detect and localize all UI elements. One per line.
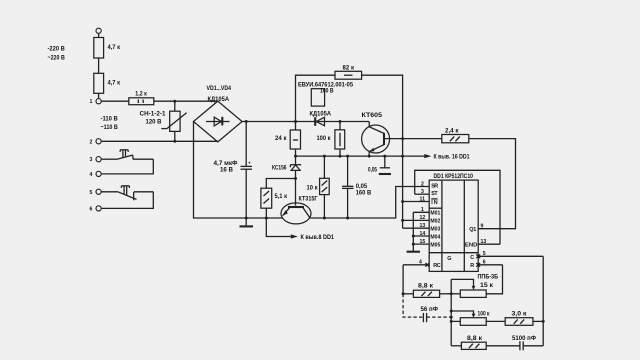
pin 3 ST [415, 189, 430, 195]
wire [98, 58, 100, 73]
rail 218 collector side [310, 187, 429, 219]
resistor 3,0k [505, 311, 543, 326]
arrow K vyv 8 DD1 [291, 234, 335, 241]
pin 6 R [476, 260, 502, 267]
terminal 1 [90, 99, 102, 106]
transistor KT605 [362, 112, 403, 156]
svg-text:К выв.8 DD1: К выв.8 DD1 [301, 234, 335, 241]
node emitter [368, 155, 371, 158]
node M05 [412, 243, 415, 246]
wire [98, 33, 100, 37]
svg-text:15: 15 [420, 239, 426, 245]
svg-text:10 к: 10 к [307, 184, 319, 191]
svg-text:6: 6 [483, 260, 486, 266]
svg-text:3: 3 [90, 157, 93, 163]
wire 5-6 bracket [101, 192, 153, 209]
wire M ground bus [412, 212, 414, 251]
node 100k top [339, 120, 342, 123]
capacitor 4,7uF [214, 122, 253, 219]
wire to bridge bottom [101, 140, 218, 142]
diode KD105A [296, 111, 370, 126]
label -110 V [101, 115, 119, 131]
wire [101, 100, 129, 102]
svg-text:8,8 к: 8,8 к [418, 283, 434, 290]
svg-text:56 пФ: 56 пФ [421, 306, 439, 313]
node bus451 [450, 292, 453, 295]
pin 9 Q1 [481, 224, 484, 230]
svg-text:КС156: КС156 [272, 164, 287, 171]
node plus column [294, 120, 297, 123]
node varistor top [173, 100, 176, 103]
IC pin labels [430, 183, 477, 269]
svg-text:4,7 к: 4,7 к [108, 44, 121, 51]
svg-text:5,1 к: 5,1 к [275, 193, 288, 200]
bus 451 vertical [450, 279, 452, 345]
svg-text:-110 В: -110 В [101, 115, 119, 122]
svg-text:ST: ST [431, 191, 438, 197]
svg-text:160 В: 160 В [356, 189, 372, 196]
pin 2 SR [421, 181, 424, 187]
svg-text:11: 11 [420, 196, 426, 202]
switch SB1 contacts [101, 155, 153, 159]
svg-text:5100 пФ: 5100 пФ [512, 335, 536, 342]
varistor CH-1-2-1 [140, 101, 187, 131]
zener KS156 [272, 156, 301, 205]
svg-text:ППБ-3Б: ППБ-3Б [478, 274, 499, 281]
svg-text:14: 14 [420, 231, 426, 237]
svg-text:4: 4 [90, 172, 93, 178]
wire 5,1k to pin8 [266, 208, 291, 236]
wire 2,4k to Q1 [469, 139, 516, 229]
pin 13 END [478, 239, 500, 245]
svg-text:КТ315Г: КТ315Г [299, 195, 318, 202]
svg-text:100 к: 100 к [317, 135, 332, 142]
svg-text:2: 2 [421, 181, 424, 187]
node on rail218 [265, 217, 268, 220]
switch SB2 contacts [101, 192, 153, 201]
resistor 2,4k [403, 128, 469, 143]
svg-text:К выв. 16 DD1: К выв. 16 DD1 [434, 154, 470, 161]
node rail left [294, 155, 297, 158]
svg-text:M03: M03 [430, 227, 440, 233]
wire 82k to bus [362, 75, 403, 228]
svg-text:-220 В: -220 В [48, 45, 66, 52]
pin 1 M01 [413, 207, 429, 213]
wire bridge plus [242, 121, 295, 123]
switch SB1 actuator [120, 150, 128, 157]
wire SR ST loop [415, 170, 500, 244]
terminal 3 [90, 157, 102, 164]
pin 11 IN [403, 196, 430, 202]
svg-text:M02: M02 [430, 219, 440, 225]
node RC resistor [402, 292, 405, 295]
ground chassis [240, 218, 254, 226]
svg-text:R: R [470, 263, 474, 269]
svg-text:3,0 к: 3,0 к [512, 311, 528, 318]
capacitor 0,05 160V [342, 156, 371, 218]
svg-text:~110 В: ~110 В [101, 124, 119, 131]
capacitor 5100pF [512, 335, 543, 350]
resistor R 4,7k lower [94, 73, 121, 93]
terminal 4 [90, 171, 102, 178]
resistor 82k [335, 64, 362, 79]
pot 15k body [451, 290, 486, 297]
node M02 [401, 219, 404, 222]
svg-text:120 В: 120 В [146, 118, 162, 125]
terminal 5 [90, 189, 102, 196]
svg-text:100 к: 100 к [478, 311, 491, 318]
resistor 1,2k [129, 90, 154, 104]
node 10k top [323, 155, 326, 158]
svg-text:M04: M04 [430, 234, 440, 240]
capacitor 56pF [421, 306, 439, 322]
arrow K vyv 16 DD1 [424, 154, 470, 161]
node M04 [412, 235, 415, 238]
resistor 5,1k [261, 179, 296, 209]
svg-text:15 к: 15 к [480, 282, 494, 289]
box EVUI.647612.001-05 [298, 82, 353, 107]
wire plus column up [296, 75, 336, 121]
svg-text:M05: M05 [430, 242, 440, 248]
node 3k bus [542, 320, 545, 323]
wire R pin to pot [486, 265, 502, 294]
pin 5 C [476, 251, 543, 258]
terminal 6 [90, 206, 102, 213]
bridge VD1-VD4 [194, 85, 243, 142]
svg-text:24 к: 24 к [275, 135, 287, 142]
svg-text:~220 В: ~220 В [48, 54, 66, 61]
pot 100k wiper [450, 310, 490, 318]
svg-text:G: G [447, 256, 451, 262]
dashed wire 56pF [403, 294, 422, 317]
svg-text:13: 13 [481, 239, 487, 245]
svg-text:КД105А: КД105А [310, 111, 332, 118]
svg-text:16 В: 16 В [220, 167, 233, 174]
svg-text:VD1...VD4: VD1...VD4 [207, 85, 232, 92]
pin 13 M03 [403, 223, 430, 229]
resistor 8,8k lower [451, 335, 520, 349]
wire to bridge top [154, 100, 218, 102]
node cap [245, 120, 248, 123]
node base bias [294, 177, 297, 180]
svg-text:КД105А: КД105А [208, 96, 230, 103]
svg-text:IN: IN [431, 200, 438, 206]
svg-text:4: 4 [419, 260, 422, 266]
pin 15 M05 [413, 239, 429, 245]
svg-text:4,7 к: 4,7 к [108, 79, 121, 86]
resistor 100k [317, 122, 345, 157]
node rail x bus [401, 155, 404, 158]
node 10k bottom [323, 217, 326, 220]
svg-text:12: 12 [420, 215, 426, 221]
svg-text:1: 1 [421, 207, 424, 213]
ground IC [407, 251, 420, 253]
svg-text:1: 1 [90, 99, 93, 105]
pin 4 RC [403, 260, 429, 267]
wire varistor bottom [174, 131, 176, 141]
svg-text:13: 13 [420, 223, 426, 229]
svg-text:0,05: 0,05 [368, 166, 377, 173]
node ground [245, 217, 248, 220]
node IN [401, 200, 404, 203]
resistor R 4,7k upper [94, 38, 121, 59]
svg-text:2: 2 [90, 139, 93, 145]
switch SB2 actuator [121, 186, 129, 196]
svg-text:DD1 КР512ПС10: DD1 КР512ПС10 [434, 173, 474, 180]
capacitor 0,05 [368, 155, 391, 174]
wire [98, 93, 100, 98]
wire bridge minus down [194, 122, 283, 219]
svg-text:C: C [470, 255, 474, 261]
pin 12 M02 [403, 215, 430, 221]
bridge diode [206, 117, 230, 126]
node cap160 top [346, 155, 349, 158]
svg-text:END: END [465, 243, 478, 249]
IC DD1 KR512PS10 box [429, 173, 478, 271]
svg-text:СН-1-2-1: СН-1-2-1 [140, 110, 166, 117]
svg-text:Q1: Q1 [469, 227, 476, 233]
transistor KT315G [281, 195, 318, 224]
resistor 8,8k upper [403, 283, 451, 298]
node 56pF bus [450, 316, 453, 319]
svg-text:82 к: 82 к [343, 64, 355, 71]
pin 14 M04 [413, 231, 429, 237]
svg-text:КТ605: КТ605 [362, 112, 383, 119]
svg-text:1,2 к: 1,2 к [135, 90, 147, 97]
svg-text:5: 5 [90, 190, 93, 196]
wire 3-4 bracket [101, 159, 153, 174]
resistor 24k [275, 122, 301, 157]
svg-text:2,4 к: 2,4 к [445, 128, 459, 135]
resistor 10k [307, 156, 330, 218]
svg-text:SR: SR [431, 183, 438, 189]
svg-text:6: 6 [90, 206, 93, 212]
svg-text:100 В: 100 В [320, 87, 334, 94]
node [173, 140, 176, 143]
svg-text:M01: M01 [430, 211, 440, 217]
label -220 V [48, 45, 66, 61]
terminal top [96, 28, 101, 33]
svg-text:RC: RC [433, 263, 441, 269]
rail 5V wire [296, 155, 425, 157]
dashed wire 56pF right [427, 316, 452, 318]
pot PPB-3B 15k wiper [451, 274, 498, 290]
node [339, 155, 342, 158]
node cap160 bottom [346, 217, 349, 220]
wire RC down [402, 265, 404, 294]
terminal 2 [90, 139, 102, 146]
node base [401, 137, 404, 140]
svg-text:5: 5 [483, 251, 486, 257]
wire C pin bus [542, 256, 544, 346]
svg-text:8,8 к: 8,8 к [467, 335, 483, 342]
svg-text:9: 9 [481, 224, 484, 230]
svg-text:+: + [248, 161, 251, 166]
svg-text:3: 3 [421, 189, 424, 195]
pot 100k body [450, 318, 506, 326]
